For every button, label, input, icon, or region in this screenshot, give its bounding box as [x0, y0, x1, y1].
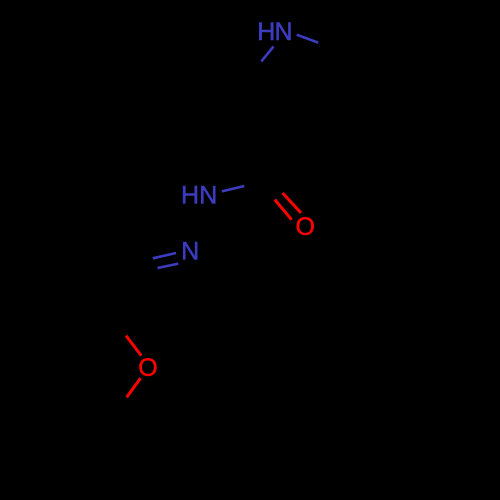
- svg-text:N: N: [181, 237, 199, 265]
- wire: C=N double bond main line (N half): [153, 253, 176, 258]
- wire: C=O double bond line 1 (O half): [283, 193, 301, 213]
- svg-text:O: O: [138, 354, 157, 382]
- svg-text:N: N: [199, 182, 217, 210]
- amide N-H label (middle HN): [181, 182, 217, 210]
- wire: furan O to C2 half-bond (upper left red): [126, 336, 141, 356]
- wire: pyrrole N to C2 half-bond (top right): [297, 35, 319, 43]
- wire: C=O double bond line 2 (O half): [275, 200, 292, 220]
- svg-text:H: H: [257, 18, 275, 46]
- svg-text:H: H: [181, 182, 199, 210]
- svg-text:O: O: [296, 213, 315, 241]
- wire: pyrrole N to C5 half-bond (top left): [261, 47, 273, 62]
- pyrrole N-H label (top HN): [257, 18, 292, 46]
- svg-text:N: N: [275, 18, 293, 46]
- wire: amide N to carbonyl C half-bond: [222, 186, 245, 191]
- wire: C=N double bond offset line (N half): [158, 264, 179, 268]
- wire: furan O to C5 half-bond (lower left red): [127, 378, 141, 397]
